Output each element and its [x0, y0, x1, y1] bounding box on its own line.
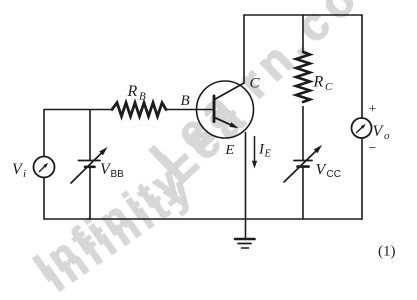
svg-text:B: B: [181, 93, 190, 109]
svg-text:R: R: [313, 74, 324, 91]
svg-text:B: B: [139, 91, 146, 103]
svg-text:−: −: [369, 141, 377, 156]
svg-text:C: C: [325, 81, 333, 93]
svg-text:E: E: [264, 149, 272, 160]
svg-text:E: E: [225, 143, 235, 158]
svg-text:R: R: [127, 83, 138, 100]
svg-text:V: V: [373, 123, 385, 140]
svg-text:C: C: [250, 76, 261, 92]
svg-text:(1): (1): [378, 244, 396, 260]
svg-text:CC: CC: [327, 169, 341, 180]
svg-text:BB: BB: [111, 169, 125, 180]
svg-text:i: i: [23, 168, 26, 180]
svg-text:+: +: [369, 102, 377, 117]
svg-text:o: o: [384, 130, 390, 142]
